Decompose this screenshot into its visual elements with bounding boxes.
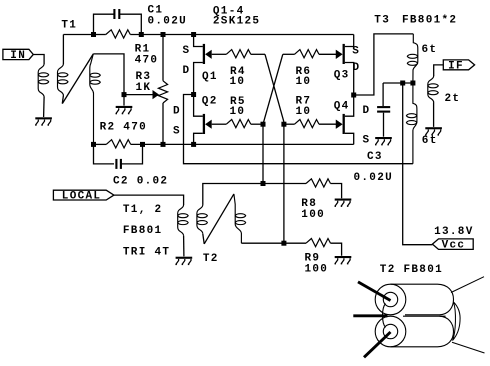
- svg-text:FB801*2: FB801*2: [402, 15, 457, 27]
- inductor T2 middle winding: [197, 205, 208, 234]
- inductor T3 secondary 2t: [428, 76, 439, 103]
- inductor T2 primary winding (LOCAL): [178, 205, 189, 236]
- svg-text:Vcc: Vcc: [442, 240, 466, 252]
- svg-text:C2 0.02: C2 0.02: [113, 175, 168, 187]
- svg-text:470: 470: [135, 54, 159, 66]
- svg-text:2SK125: 2SK125: [213, 15, 260, 27]
- wire T1 primary to ground: [43, 97, 46, 117]
- core drawing: cylinders: [391, 284, 454, 347]
- core drawing: wire between holes: [383, 304, 386, 328]
- capacitor C2: [116, 159, 121, 169]
- wire T3 feed: [354, 34, 414, 95]
- ground under R3 wiper node: [116, 106, 133, 114]
- node Q1D-Q2D: [191, 92, 196, 97]
- wire IF to 2t winding: [434, 65, 444, 76]
- wire Q4 source lead: [345, 133, 354, 144]
- wire T2 mid winding top: [203, 184, 263, 205]
- wire crossover to R6: [283, 53, 295, 55]
- transistor Q4: [336, 114, 345, 134]
- svg-text:D: D: [173, 106, 181, 118]
- svg-text:1K: 1K: [136, 82, 152, 94]
- transistor Q1: [203, 44, 212, 64]
- node A (LO phase 1): [261, 122, 266, 127]
- wire R3 wiper: [124, 94, 153, 96]
- transistor Q2: [203, 114, 212, 134]
- wire C3 bottom lead: [383, 113, 385, 137]
- power flag Vcc: [432, 239, 473, 252]
- wire bus main segment: [130, 34, 353, 36]
- svg-text:0.02U: 0.02U: [354, 172, 394, 184]
- input flag LOCAL: [53, 190, 114, 202]
- Q3 gate arrow: [336, 50, 343, 59]
- svg-text:6t: 6t: [422, 135, 438, 147]
- wire crossover diagonal 1: [265, 54, 284, 122]
- capacitor C1: [114, 9, 119, 19]
- resistor R5: [226, 120, 250, 128]
- svg-text:Q1: Q1: [202, 71, 218, 83]
- inductor T1 primary winding (IN side): [38, 64, 49, 97]
- wire bus left segment: [94, 34, 106, 36]
- wire Q3 source lead: [345, 35, 354, 47]
- resistor R9: [306, 239, 330, 247]
- node bus-Q1 source: [191, 32, 196, 37]
- wire C1 loop left: [94, 14, 115, 34]
- capacitor C3: [377, 107, 390, 112]
- wire C1 loop right: [119, 14, 141, 34]
- wire T2 diagonal link: [204, 194, 234, 244]
- svg-text:S: S: [183, 45, 191, 57]
- resistor R6: [295, 50, 319, 58]
- wire R9 to ground: [331, 243, 342, 256]
- svg-text:FB801: FB801: [123, 225, 163, 237]
- node A' on R8 line: [261, 181, 266, 186]
- wire C3 top lead: [382, 83, 384, 106]
- wire C2 loop left: [94, 144, 115, 164]
- wire Q2 source lead: [194, 133, 203, 144]
- core drawing: exit wire top: [451, 277, 484, 293]
- resistor R8: [306, 179, 330, 187]
- R3 wiper arrow: [153, 90, 160, 99]
- svg-text:6t: 6t: [422, 44, 438, 56]
- svg-text:2t: 2t: [445, 93, 461, 105]
- input flag IN: [3, 49, 33, 62]
- wire Q4 drain lead: [345, 95, 354, 116]
- node bus-R3 top: [161, 32, 166, 37]
- wire node B to R7: [284, 123, 295, 125]
- svg-text:Q3: Q3: [334, 69, 350, 81]
- node B' on R9 line: [281, 241, 286, 246]
- svg-text:D: D: [363, 105, 371, 117]
- wire T1 right top to R3 node: [93, 54, 124, 95]
- ground under C3: [375, 137, 392, 145]
- resistor R3 (pot): [158, 81, 167, 103]
- core drawing: far-end lens: [453, 302, 461, 341]
- wire T1 mid winding entry: [62, 35, 64, 65]
- svg-text:Q4: Q4: [334, 101, 350, 113]
- wire Vcc feed: [403, 83, 433, 245]
- ground under R9: [335, 256, 352, 264]
- node lower bus left: [91, 142, 96, 147]
- wire to R8: [263, 183, 306, 185]
- wire T1 mid winding top to bus: [63, 34, 93, 36]
- wire Q2 gate: [212, 123, 227, 125]
- node B (LO phase 2): [281, 122, 286, 127]
- wire LOCAL to T2 primary: [114, 195, 184, 205]
- wire Q2 drain lead: [194, 95, 203, 117]
- transistor Q3: [336, 44, 345, 64]
- svg-text:T1: T1: [61, 20, 77, 32]
- wire Q1 drain lead: [194, 63, 203, 95]
- ground under T1 primary: [35, 117, 52, 125]
- svg-text:T1, 2: T1, 2: [123, 204, 163, 216]
- resistor R2: [106, 140, 131, 148]
- wire junction to ground: [123, 95, 125, 106]
- svg-text:IF: IF: [448, 60, 464, 72]
- node lower bus C2 right: [140, 142, 145, 147]
- inductor T2 right winding: [234, 194, 246, 243]
- wire Q1 source lead: [194, 35, 203, 47]
- svg-text:LOCAL: LOCAL: [62, 191, 102, 203]
- svg-text:T2: T2: [203, 253, 219, 265]
- svg-text:TRI 4T: TRI 4T: [123, 246, 170, 258]
- wire lower bus main: [131, 143, 354, 145]
- inductor T1 right winding: [90, 54, 101, 144]
- wire T1 mid bottom V-link: [62, 96, 63, 104]
- wire T2 right bottom to R9: [241, 242, 306, 244]
- svg-text:0.02U: 0.02U: [148, 16, 188, 28]
- wire R3 bottom lead: [162, 103, 164, 144]
- core drawing: exit wire bottom: [452, 342, 485, 353]
- svg-text:S: S: [363, 135, 371, 147]
- svg-text:10: 10: [296, 76, 312, 88]
- wire R4 to crossover: [251, 53, 265, 55]
- core drawing: front ring bottom: [375, 316, 406, 347]
- resistor R7: [295, 120, 319, 128]
- node Q3D-Q4S: [351, 93, 356, 98]
- Q4 gate arrow: [336, 120, 343, 129]
- svg-text:D: D: [353, 62, 361, 74]
- wire T2 mid bottom V-link: [203, 234, 204, 244]
- node bus-T1/C1: [91, 32, 96, 37]
- svg-text:10: 10: [230, 76, 246, 88]
- inductor T3 bottom 6t winding: [406, 83, 417, 164]
- svg-text:100: 100: [301, 209, 325, 221]
- svg-text:D: D: [183, 65, 191, 77]
- resistor R1: [106, 30, 131, 38]
- wire node B down: [283, 124, 285, 243]
- node T3 Vcc tap: [400, 81, 405, 86]
- svg-text:13.8V: 13.8V: [434, 226, 474, 238]
- svg-text:Q2: Q2: [202, 96, 218, 108]
- wire R7 to Q4 gate: [319, 123, 336, 125]
- svg-text:100: 100: [305, 264, 329, 276]
- ground under T2 primary: [175, 257, 192, 265]
- node Q2S on lower bus: [191, 142, 196, 147]
- node T3 winding junction: [410, 81, 415, 86]
- wire IN to T1 primary: [33, 55, 44, 65]
- svg-text:T3: T3: [374, 15, 390, 27]
- wire Q3 drain lead: [345, 63, 354, 96]
- core drawing: winding lead 1: [358, 282, 391, 301]
- wire T3 center link: [383, 82, 413, 84]
- inductor T1 middle winding: [58, 64, 69, 96]
- wire R5 to node A: [251, 123, 263, 125]
- core drawing: winding lead 2: [353, 314, 387, 317]
- svg-text:10: 10: [230, 106, 246, 118]
- wire Q1 gate: [212, 53, 227, 55]
- node lower bus R3 bottom: [161, 142, 166, 147]
- wire node A down: [262, 124, 264, 183]
- node bus-C1 right: [139, 32, 144, 37]
- wire R3 top lead: [162, 35, 164, 81]
- core drawing: front ring top: [375, 284, 406, 315]
- ground under R8: [335, 199, 352, 207]
- node R3 wiper junction: [122, 92, 127, 97]
- svg-text:S: S: [352, 46, 360, 58]
- wire T2 primary to ground: [183, 236, 185, 257]
- svg-text:S: S: [173, 126, 181, 138]
- ground under 2t winding: [425, 127, 442, 135]
- output flag IF: [443, 60, 474, 72]
- wire 2t to ground: [433, 103, 435, 127]
- svg-text:R2 470: R2 470: [100, 122, 147, 134]
- svg-text:10: 10: [296, 106, 312, 118]
- svg-text:T2 FB801: T2 FB801: [380, 264, 443, 276]
- inductor T3 top 6t winding: [407, 34, 418, 83]
- svg-text:C3: C3: [367, 151, 383, 163]
- svg-text:R9: R9: [305, 252, 321, 264]
- wire T1 diagonal link: [62, 54, 93, 104]
- core drawing: winding lead 3: [364, 332, 391, 357]
- wire lower bus left segment: [94, 143, 107, 145]
- svg-text:IN: IN: [10, 50, 26, 62]
- wire drain return line: [184, 95, 413, 164]
- wire C2 loop right: [121, 144, 143, 164]
- wire R8 to ground: [331, 184, 342, 199]
- wire R6 to Q3 gate: [319, 53, 336, 55]
- wire crossover diagonal 2: [263, 54, 283, 124]
- resistor R4: [226, 50, 250, 58]
